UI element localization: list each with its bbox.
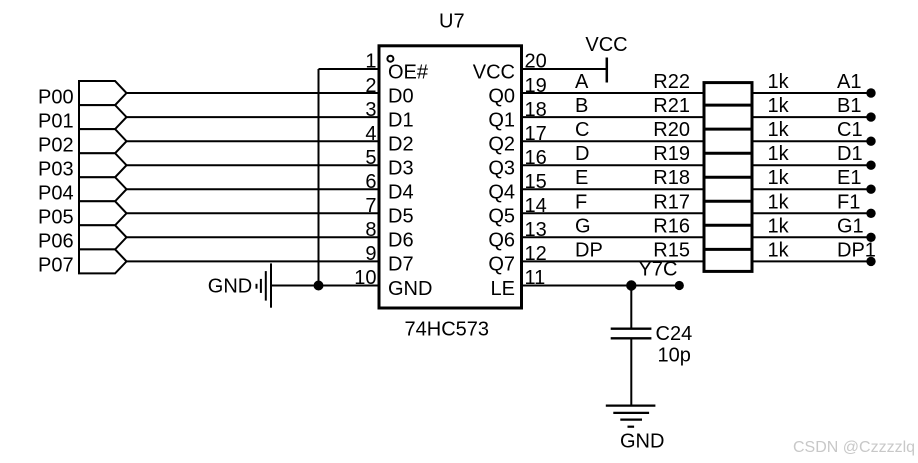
resistor network divider 5 [704,200,752,203]
svg-text:R20: R20 [653,119,690,141]
wire U7 Q5 pin 14 to resistor R17 [522,212,703,214]
svg-text:Q6: Q6 [488,230,515,252]
svg-text:GND: GND [620,431,664,453]
wire U7 Q7 pin 12 to resistor R15 [522,260,703,262]
node dot E1 [866,185,875,194]
wire P00 to U7 D0 pin 2 [127,92,380,94]
port tag P06 [79,225,127,249]
svg-text:D6: D6 [388,230,414,252]
wire U7 pin 1 OE# stub [319,68,380,70]
resistor network divider 6 [704,224,752,227]
junction dot at OE#/GND node [314,281,324,291]
port tag P03 [79,153,127,177]
power symbol VCC bar [606,58,609,83]
svg-text:D1: D1 [837,143,863,165]
svg-text:P00: P00 [38,86,74,108]
svg-text:U7: U7 [439,11,465,33]
node dot B1 [866,112,875,121]
svg-text:R16: R16 [653,215,690,237]
wire P03 to U7 D3 pin 5 [127,164,380,166]
svg-text:D2: D2 [388,134,414,156]
svg-text:F1: F1 [837,191,860,213]
port tag P00 [79,81,127,105]
svg-text:1k: 1k [768,95,790,117]
wire P01 to U7 D1 pin 3 [127,116,380,118]
resistor network divider 3 [704,152,752,155]
svg-text:D4: D4 [388,182,414,204]
svg-text:VCC: VCC [585,34,627,56]
port tag P02 [79,129,127,153]
svg-text:D0: D0 [388,85,414,107]
svg-text:VCC: VCC [473,61,515,83]
wire U7 Q3 pin 16 to resistor R19 [522,164,703,166]
wire P05 to U7 D5 pin 7 [127,212,380,214]
wire U7 pin 20 to VCC [522,68,607,70]
svg-text:OE#: OE# [388,61,429,83]
svg-text:Q4: Q4 [488,182,515,204]
wire Y7C down to capacitor C24 [630,286,632,328]
svg-text:R18: R18 [653,167,690,189]
resistor network divider 7 [704,248,752,251]
wire P04 to U7 D4 pin 6 [127,188,380,190]
IC U7 74HC573 octal latch body [379,46,522,308]
wire vertical OE# to GND net [318,69,320,286]
resistor network body R15-R22 [704,83,752,272]
svg-text:1k: 1k [768,143,790,165]
node dot D1 [866,161,875,170]
wire U7 Q6 pin 13 to resistor R16 [522,236,703,238]
svg-text:R17: R17 [653,191,690,213]
svg-text:G1: G1 [837,215,864,237]
wire P02 to U7 D2 pin 4 [127,140,380,142]
wire U7 Q4 pin 15 to resistor R18 [522,188,703,190]
svg-text:E: E [575,167,588,189]
svg-text:D1: D1 [388,109,414,131]
svg-text:E1: E1 [837,167,861,189]
svg-text:R22: R22 [653,71,690,93]
svg-text:D7: D7 [388,254,414,276]
capacitor C24 plates [611,329,652,339]
svg-text:D3: D3 [388,158,414,180]
svg-text:B: B [575,95,588,117]
node dot G1 [866,233,875,242]
port tag P04 [79,177,127,201]
wire resistor R22 to node A1 [754,92,872,94]
pin 1 active-low bubble [387,56,393,62]
svg-text:D: D [575,143,589,165]
svg-text:D5: D5 [388,206,414,228]
wire resistor R21 to node B1 [754,116,872,118]
svg-text:74HC573: 74HC573 [405,319,490,341]
wire U7 pin 11 LE to node Y7C [522,285,680,287]
svg-text:B1: B1 [837,95,861,117]
wire P07 to U7 D7 pin 9 [127,260,380,262]
svg-text:C24: C24 [656,323,693,345]
svg-text:A: A [575,71,589,93]
node dot DP1 [866,257,875,266]
svg-text:R21: R21 [653,95,690,117]
svg-text:F: F [575,191,587,213]
svg-text:C: C [575,119,589,141]
node dot A1 [866,88,875,97]
svg-text:1k: 1k [768,167,790,189]
resistor network divider 2 [704,128,752,131]
svg-text:1k: 1k [768,191,790,213]
svg-text:Q5: Q5 [488,206,515,228]
svg-text:Y7C: Y7C [639,259,678,281]
svg-text:C1: C1 [837,119,863,141]
junction dot node Y7C [626,280,636,290]
svg-text:R19: R19 [653,143,690,165]
svg-text:1k: 1k [768,71,790,93]
svg-text:Q2: Q2 [488,134,515,156]
svg-text:GND: GND [388,278,432,300]
wire resistor R17 to node F1 [754,212,872,214]
svg-text:LE: LE [491,278,515,300]
svg-text:1k: 1k [768,239,790,261]
svg-text:P02: P02 [38,135,74,157]
svg-text:1k: 1k [768,215,790,237]
wire resistor R19 to node D1 [754,164,872,166]
svg-text:P05: P05 [38,207,74,229]
wire U7 Q2 pin 17 to resistor R20 [522,140,703,142]
svg-text:GND: GND [208,276,252,298]
wire P06 to U7 D6 pin 8 [127,236,380,238]
resistor network divider 1 [704,104,752,107]
ground symbol (left, signal ground) [257,263,272,307]
wire resistor R16 to node G1 [754,236,872,238]
port tag P07 [79,249,127,273]
wire capacitor C24 to ground [630,339,632,405]
svg-text:P03: P03 [38,159,74,181]
wire U7 Q0 pin 19 to resistor R22 [522,92,703,94]
svg-text:A1: A1 [837,71,861,93]
port tag P05 [79,201,127,225]
svg-text:P07: P07 [38,255,74,277]
port tag P01 [79,105,127,129]
node dot C1 [866,137,875,146]
svg-text:P01: P01 [38,110,74,132]
resistor network divider 4 [704,176,752,179]
wire resistor R15 to node DP1 [754,260,872,262]
svg-text:P06: P06 [38,231,74,253]
svg-text:P04: P04 [38,183,74,205]
ground symbol (bottom, earth) [606,406,656,427]
wire resistor R18 to node E1 [754,188,872,190]
svg-text:Q0: Q0 [488,85,515,107]
node dot F1 [866,209,875,218]
wire resistor R20 to node C1 [754,140,872,142]
svg-text:DP: DP [575,239,603,261]
svg-text:Q1: Q1 [488,109,515,131]
svg-text:Q7: Q7 [488,254,515,276]
svg-text:1k: 1k [768,119,790,141]
node dot end of LE stub [675,281,684,290]
svg-text:10p: 10p [658,345,691,367]
wire GND to U7 pin 10 [271,285,379,287]
svg-text:CSDN @Czzzzlq: CSDN @Czzzzlq [793,439,915,456]
svg-text:Q3: Q3 [488,158,515,180]
wire U7 Q1 pin 18 to resistor R21 [522,116,703,118]
svg-text:G: G [575,215,591,237]
